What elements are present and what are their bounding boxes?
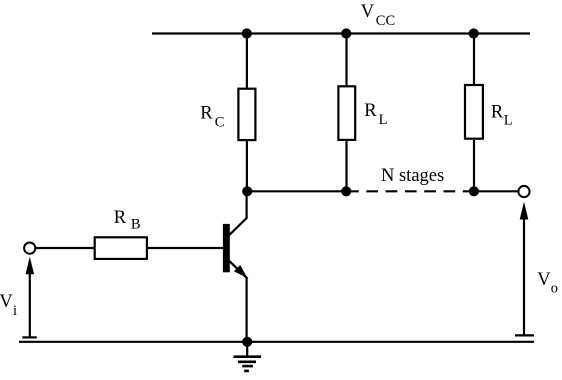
ground bar 4: [244, 370, 249, 373]
svg-text:L: L: [504, 112, 513, 128]
wire collector vertical: [246, 191, 248, 218]
wire Vo base tick: [515, 334, 534, 336]
wire collector node to RL1 node: [247, 190, 346, 192]
resistor RB: [95, 237, 147, 259]
wire VCC rail: [152, 32, 530, 34]
node VCC label: [361, 2, 395, 29]
wire RL1 bottom to node: [345, 140, 347, 191]
transistor Q1 emitter arrowhead: [234, 265, 247, 278]
node junction dot on VCC rail at RL1: [341, 28, 351, 38]
wire Vi arrow shaft: [29, 274, 31, 338]
wire dashed N stages: [347, 190, 474, 192]
svg-text:o: o: [551, 280, 558, 296]
ground bar 1: [234, 355, 262, 358]
wire RB to base: [148, 247, 223, 249]
svg-text:N stages: N stages: [381, 166, 444, 186]
svg-text:B: B: [131, 217, 141, 233]
wire VCC to RL1 top: [345, 34, 347, 87]
transistor Q1 collector diagonal: [229, 217, 247, 235]
label RL1: [364, 101, 387, 128]
svg-text:i: i: [13, 303, 17, 319]
transistor Q1 emitter diagonal: [229, 261, 248, 279]
svg-text:R: R: [200, 104, 213, 124]
node Vo label: [537, 270, 558, 296]
node junction dot RL2 bottom: [469, 186, 479, 196]
wire RL2 bottom to node: [473, 140, 475, 191]
svg-text:R: R: [114, 208, 127, 228]
label RB: [114, 208, 141, 232]
wire VCC to RL2 top: [473, 34, 475, 85]
transistor Q1 base bar: [223, 224, 230, 272]
node junction dot collector: [242, 186, 252, 196]
wire RL2 node to output terminal: [474, 190, 518, 192]
node output terminal circle: [518, 186, 529, 197]
svg-text:CC: CC: [376, 13, 395, 29]
node input terminal circle: [24, 243, 35, 254]
wire RC bottom to node: [246, 140, 248, 191]
svg-text:R: R: [491, 102, 504, 122]
node Vo arrowhead: [520, 202, 529, 220]
wire Vo arrow shaft: [523, 219, 525, 336]
node Vi arrowhead: [26, 257, 35, 275]
svg-text:V: V: [0, 292, 13, 312]
wire Vi base tick: [22, 336, 36, 338]
resistor RL2: [465, 85, 483, 139]
node junction dot emitter-ground: [242, 337, 252, 347]
wire VCC to RC top: [246, 34, 248, 89]
node junction dot on VCC rail at RC: [242, 28, 252, 38]
svg-text:C: C: [215, 115, 225, 131]
label RC: [200, 104, 224, 131]
wire ground rail: [19, 341, 534, 343]
svg-text:R: R: [364, 101, 377, 121]
node Vi label: [0, 292, 17, 319]
svg-text:V: V: [537, 270, 551, 290]
ground bar 3: [242, 365, 253, 368]
resistor RL1: [338, 86, 355, 140]
node junction dot on VCC rail at RL2: [469, 28, 479, 38]
svg-text:V: V: [361, 2, 375, 22]
node junction dot RL1 bottom: [341, 186, 351, 196]
ground stub: [246, 342, 248, 357]
wire input to RB: [36, 247, 95, 249]
label RL2: [491, 102, 513, 128]
ground bar 2: [238, 360, 256, 363]
resistor RC: [238, 89, 255, 140]
svg-text:L: L: [379, 112, 388, 128]
wire emitter vertical: [246, 278, 248, 342]
